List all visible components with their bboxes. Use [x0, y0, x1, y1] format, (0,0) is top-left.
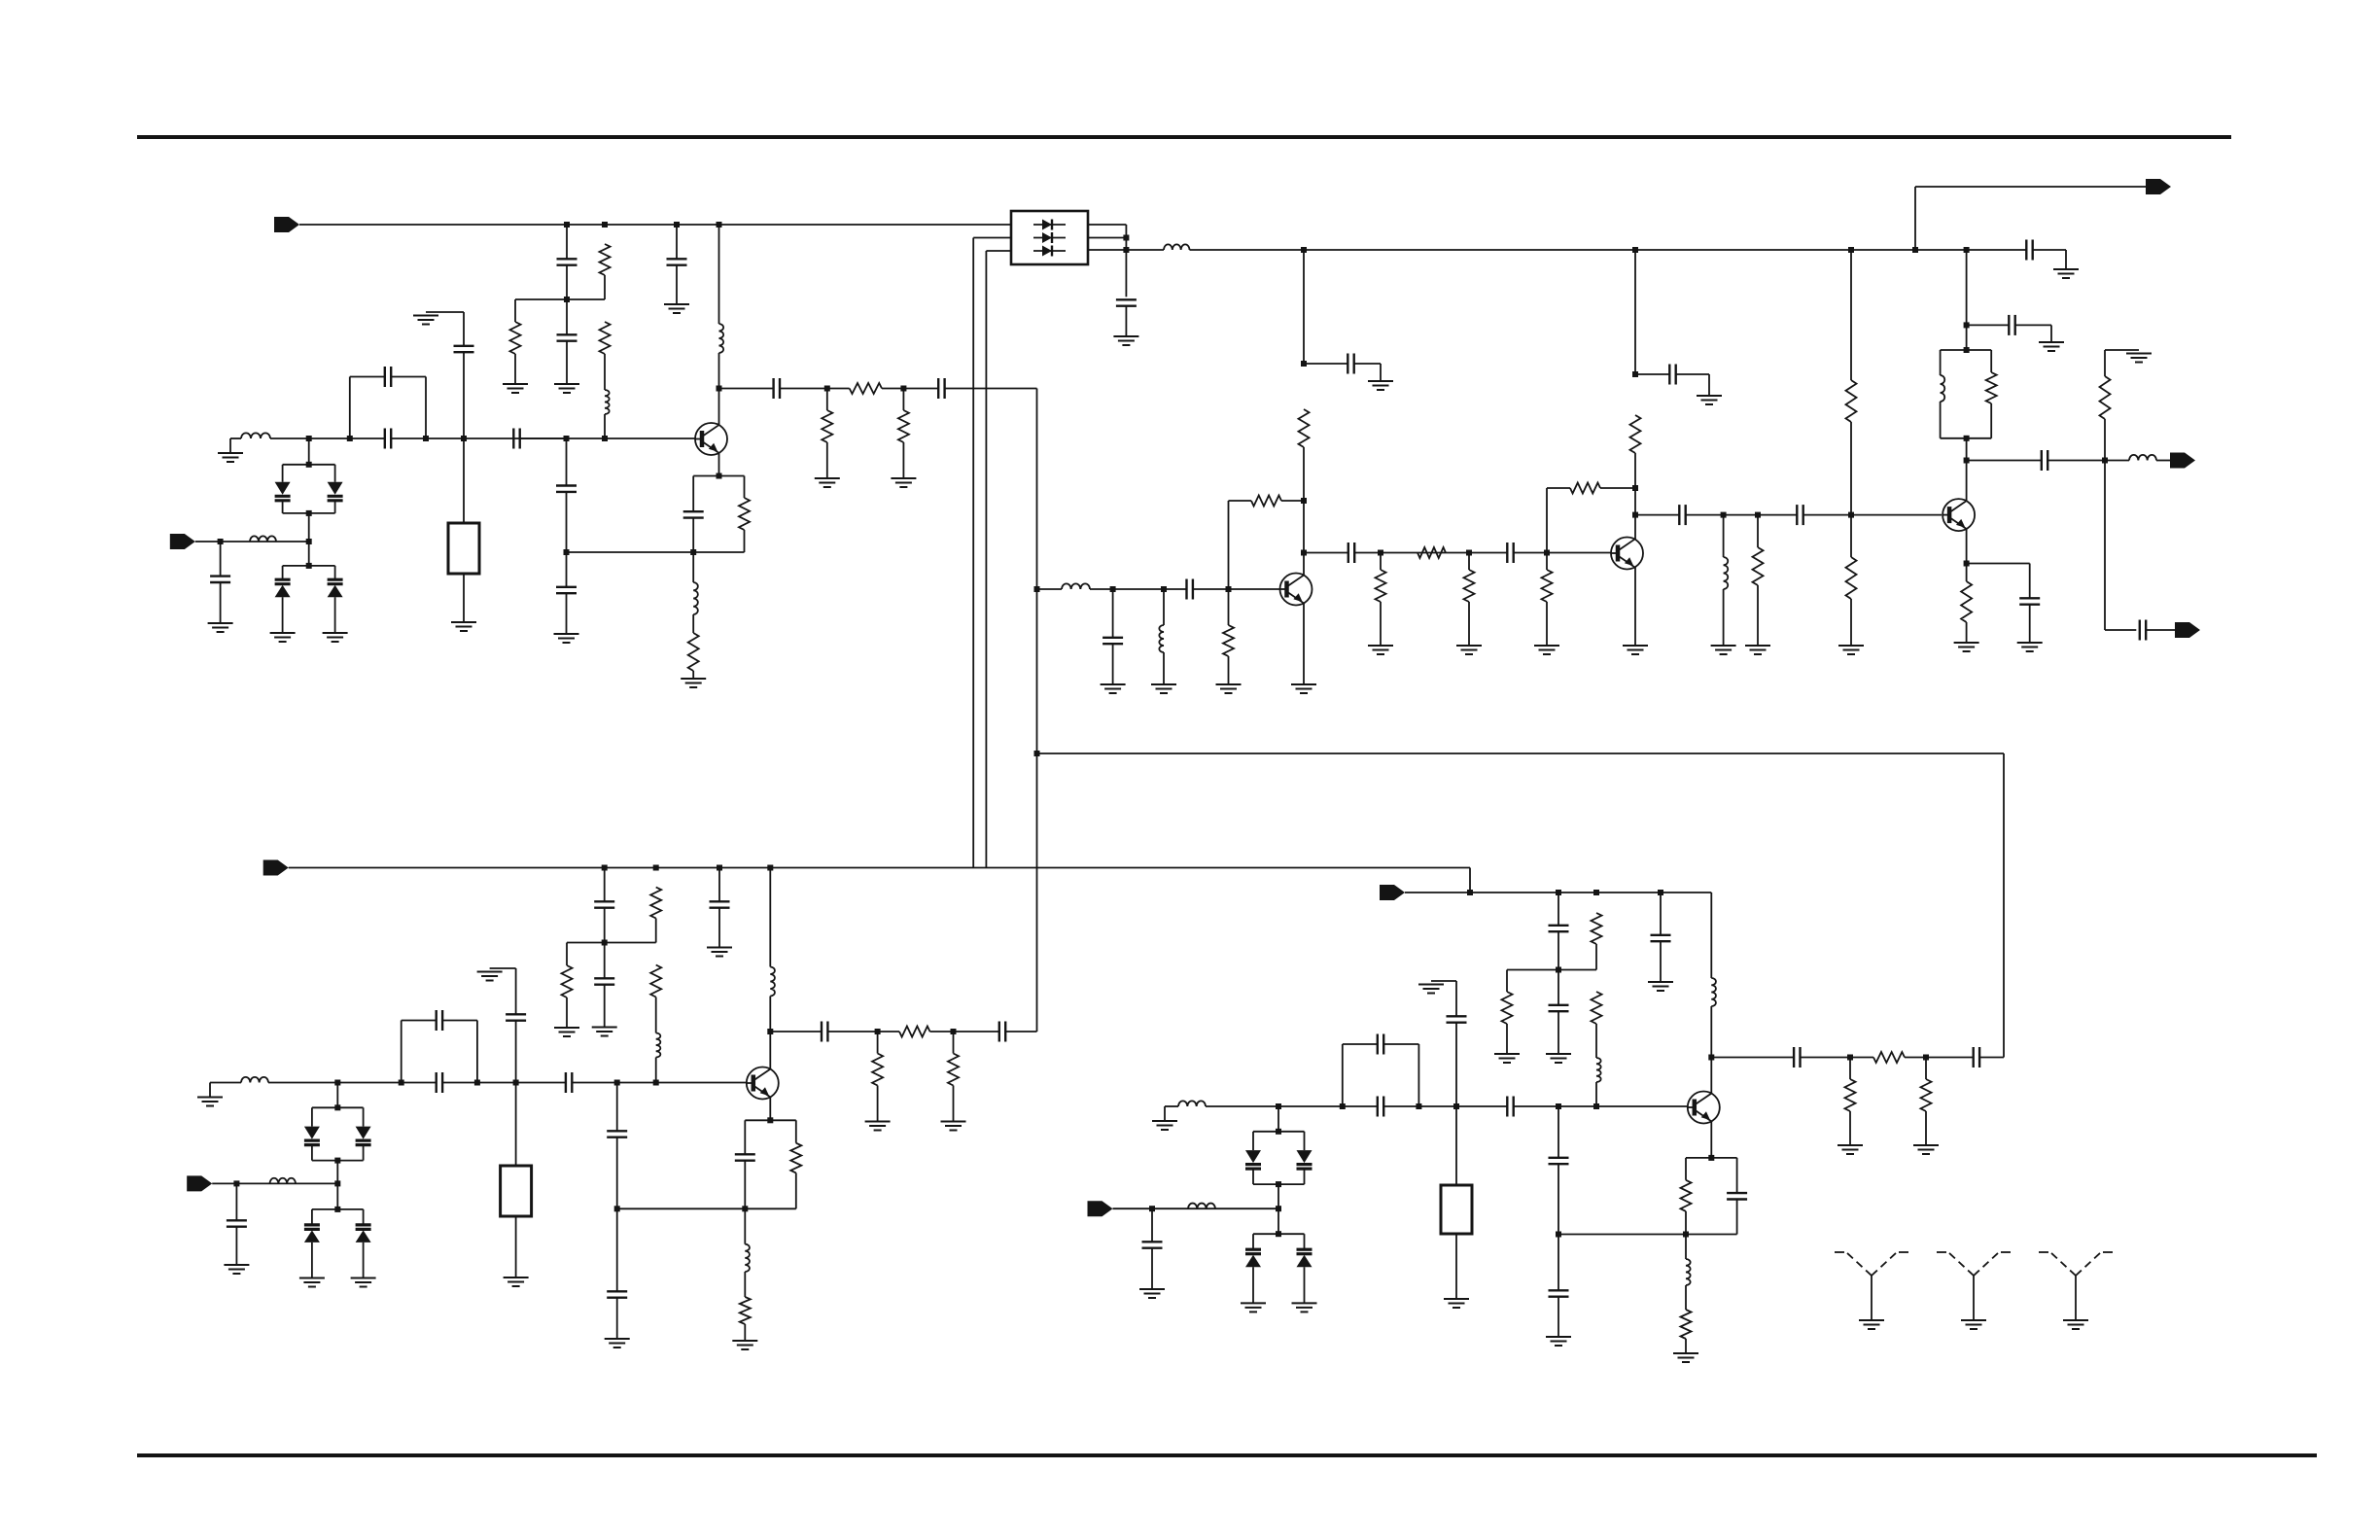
node Q5 collector [767, 1029, 773, 1034]
wire D2 bottom lead [334, 502, 336, 513]
wire bridge top left C [402, 1020, 437, 1022]
wire D11 bottom lead [363, 1242, 365, 1278]
capacitor C48 [1974, 1047, 1979, 1067]
wire R2 top lead [514, 299, 516, 322]
wire Q4 emitter lead [1966, 529, 1968, 564]
node P9/stem junction [1276, 1206, 1281, 1211]
node C-link junction [602, 940, 608, 946]
wire varactor stem D2 [1277, 1184, 1279, 1208]
wire C44 top lead [1557, 970, 1559, 1005]
varactor D9 [356, 1127, 371, 1145]
port P2 tune input arrow [170, 534, 195, 549]
inductor L16 [745, 1244, 750, 1272]
wire D13 bottom lead [1304, 1170, 1306, 1184]
node C21 tap [1632, 371, 1638, 377]
wire R11 bottom lead [1303, 447, 1305, 501]
capacitor C39 [227, 1220, 247, 1226]
wire R24-R26 link [655, 919, 657, 943]
wire D-link [1507, 969, 1596, 971]
ground below R6 [891, 478, 916, 487]
inductor L10 [1941, 375, 1945, 402]
wire R22 gnd link [2105, 349, 2139, 351]
capacitor C43 [1549, 926, 1569, 931]
wire C34 to bus [1005, 1031, 1036, 1032]
resistor R16 [1570, 483, 1600, 494]
wire R22 bottom lead [2104, 419, 2106, 461]
resistor R25 [562, 965, 573, 997]
wire D9 top lead [363, 1107, 365, 1126]
node P7/stem junction [334, 1180, 340, 1186]
wire R23 top lead [1966, 564, 1968, 582]
node P2 cap tap [218, 539, 224, 544]
wire bridge top right C [442, 1020, 477, 1022]
wire RF bus vertical [1036, 389, 1038, 1032]
node bridge left A [347, 436, 353, 441]
wire L5 top lead [692, 552, 694, 582]
node Q4 emitter [1964, 561, 1970, 567]
wire C48 to feed [1979, 1057, 2004, 1059]
port P9 tune input arrow [1088, 1201, 1113, 1216]
wire L8 bottom lead [1163, 652, 1165, 684]
node bridge right C [474, 1080, 480, 1086]
port P6 input arrow [263, 860, 289, 876]
resistor R4 [850, 383, 882, 394]
resistor R22 [2100, 376, 2111, 419]
wire R28 bottom lead [877, 1086, 879, 1122]
node rail-A/C1 junction [564, 222, 570, 227]
varactor D12 [1245, 1150, 1261, 1169]
ground at R22 [2126, 354, 2152, 363]
node var bracket C2 [334, 1158, 340, 1164]
node Q1 emitter [717, 473, 722, 479]
wire Q3 base stub [1610, 552, 1612, 555]
wire D14 bottom lead [1252, 1267, 1254, 1303]
capacitor C12 [683, 511, 704, 517]
capacitor C22 [1679, 505, 1685, 525]
node C13/C14 junction [564, 549, 570, 555]
wire emitter link A [567, 551, 694, 553]
ground below C39 [224, 1265, 249, 1274]
wire C13 bottom lead [566, 492, 568, 552]
wire R33 bottom lead [1506, 1024, 1508, 1054]
diode D5 in U1 [1033, 220, 1066, 230]
wire R10 right lead [1281, 500, 1304, 502]
wire var bracket C3 [312, 1208, 364, 1210]
inductor L17 [1596, 1058, 1601, 1082]
wire Q6 out to C47 [1711, 1057, 1794, 1059]
wire var bracket D1 [1253, 1131, 1305, 1133]
wire R37 bottom lead [1925, 1111, 1927, 1145]
ground below C21 [1697, 396, 1722, 404]
inductor L4 [250, 536, 276, 542]
wire R15 bottom lead [1546, 602, 1548, 646]
capacitor C52 [1447, 1016, 1467, 1022]
capacitor C1 [557, 259, 577, 264]
wire R32-R34 link [1595, 944, 1597, 970]
wire C41 bottom lead [616, 1137, 618, 1209]
wire varactor stem C3 [336, 1183, 338, 1209]
ground below C28 [2017, 643, 2043, 651]
node L17 join D [1593, 1103, 1599, 1109]
wire L21 top lead [1685, 1235, 1687, 1260]
wire varactor stem D1 [1277, 1106, 1279, 1132]
wire C25 right lead [2015, 324, 2051, 326]
wire L1 bottom lead [604, 414, 606, 438]
node L12 join C [653, 1080, 659, 1086]
ground below C2 [554, 384, 579, 393]
resistor R31 [740, 1297, 751, 1324]
capacitor C2 [557, 334, 577, 340]
node rail-B end [1964, 247, 1970, 253]
resistor R27 [899, 1027, 930, 1037]
wire L9 bottom lead [1723, 589, 1725, 646]
capacitor C28 [2019, 598, 2040, 604]
wire D4 bottom lead [334, 597, 336, 633]
node L8 tap [1161, 586, 1167, 592]
wire C5 to R4 [780, 388, 850, 390]
capacitor C47 [1794, 1047, 1800, 1067]
resistor R32 [1592, 913, 1602, 944]
wire U1 left pin3 [986, 250, 1011, 252]
wire D3 top lead [282, 566, 284, 579]
wire R38 top lead [1685, 1158, 1687, 1180]
antenna symbol ANT3 [2039, 1252, 2113, 1320]
capacitor C32 [710, 901, 730, 907]
diode D6 in U1 [1033, 232, 1066, 243]
wire C16 bottom lead [1112, 644, 1114, 684]
wire Y3 upper stem [1455, 981, 1457, 1016]
top border rule [137, 135, 2231, 139]
node bridge left D [1340, 1103, 1346, 1109]
node varactor tap D [1276, 1103, 1281, 1109]
wire C1 bottom lead [566, 265, 568, 300]
ground below D11 [351, 1278, 376, 1287]
bottom border rule [137, 1453, 2317, 1457]
wire C11 bottom lead [220, 582, 222, 623]
wire R28 top lead [877, 1032, 879, 1054]
wire varactor stem D3 [1277, 1208, 1279, 1234]
node rail-D/railC join [1467, 890, 1473, 895]
wire rail A [299, 224, 1011, 226]
capacitor C40 [735, 1154, 755, 1160]
wire C46 top lead [1660, 892, 1662, 935]
wire D9 bottom lead [363, 1146, 365, 1161]
node Q4 collector [1964, 458, 1970, 464]
varactor D1 [275, 482, 291, 501]
ground below D10 [299, 1278, 325, 1287]
wire R6 bottom lead [902, 442, 904, 478]
wire C54 bottom lead [1736, 1200, 1738, 1235]
node RF bus stage2 tap [1034, 586, 1040, 592]
wire var bracket A1 [283, 464, 335, 466]
wire C33 to R27 [827, 1031, 899, 1032]
wire rail C drop [1469, 868, 1471, 893]
capacitor C21 [1669, 365, 1675, 385]
varactor D2 [328, 482, 343, 501]
inductor L12 [656, 1033, 661, 1058]
ground below R2 [503, 384, 528, 393]
ground below C4 [664, 304, 689, 313]
wire D8 top lead [311, 1107, 313, 1126]
wire R27 to C34 [930, 1031, 999, 1032]
ground below Y3 [1444, 1299, 1469, 1308]
wire var bracket C1 [312, 1106, 364, 1108]
wire L18 bottom lead [1710, 1006, 1712, 1058]
wire R18 bottom lead [1634, 453, 1636, 488]
wire C44 bottom lead [1557, 1011, 1559, 1054]
node Q4 base node [1848, 512, 1854, 518]
ground below R15 [1534, 646, 1559, 654]
wire st23 c [1514, 552, 1611, 554]
inductor L9 [1724, 557, 1729, 589]
ground below R36 [1837, 1145, 1863, 1154]
ground below L8 [1151, 684, 1176, 693]
wire A2 line mid [391, 437, 566, 439]
resistor R14 [1464, 570, 1475, 602]
node L9 tap [1721, 512, 1727, 518]
wire Q2 emitter lead [1303, 603, 1305, 684]
wire out2 b [2047, 460, 2129, 462]
wire L13 top lead [769, 868, 771, 967]
wire emitter bracket C bottom [745, 1207, 796, 1209]
wire feed line drop [2003, 753, 2005, 1058]
T/R switch block U1 [1011, 211, 1088, 264]
ground below R20 [1838, 646, 1864, 654]
wire gnd link Y1 [426, 311, 464, 313]
wire var bracket A3 [283, 565, 335, 567]
capacitor C19 [1348, 542, 1354, 563]
node rail-B/R17 leg [1848, 247, 1854, 253]
node var bracket D1 [1276, 1129, 1281, 1135]
wire Y1 upper stem [463, 312, 465, 346]
wire Q4 collector lead [1966, 461, 1968, 502]
resistor R20 [1846, 557, 1857, 599]
wire varactor stem C2 [336, 1161, 338, 1184]
node emitter-cap leg D [1556, 1103, 1561, 1109]
ground below R25 [554, 1028, 579, 1036]
wire R19 bottom lead [1757, 585, 1759, 646]
wire out3 b [2146, 629, 2175, 631]
inductor L19 [1178, 1101, 1206, 1106]
wire D2 line left [1206, 1105, 1378, 1107]
node varactor tap C [334, 1080, 340, 1086]
wire D2 top lead [334, 465, 336, 482]
ground below R33 [1494, 1054, 1520, 1063]
capacitor C29 [594, 901, 614, 907]
capacitor C38 [506, 1014, 526, 1020]
wire R25 top lead [566, 943, 568, 966]
wire L16 top lead [744, 1208, 746, 1243]
resistor R15 [1542, 570, 1553, 602]
node Q3 collector [1632, 512, 1638, 518]
wire out2 a [1967, 460, 2042, 462]
wire varactor stem A2 [308, 513, 310, 542]
capacitor C5 [774, 378, 780, 399]
wire tank top bar [1941, 349, 1992, 351]
resistor R26 [650, 965, 661, 997]
capacitor C33 [822, 1022, 827, 1042]
node Q6 collector [1708, 1055, 1714, 1061]
wire R6 top lead [902, 389, 904, 411]
node R35/R37 junction [1923, 1055, 1929, 1061]
node var bracket A2 [306, 510, 312, 516]
capacitor C24 [2026, 240, 2032, 261]
wire C54 top lead [1736, 1158, 1738, 1193]
wire C14 top lead [566, 552, 568, 587]
wire P7 line [212, 1182, 337, 1184]
wire C4 bottom lead [676, 265, 678, 305]
ground below R19 [1745, 646, 1770, 654]
resistor R34 [1592, 992, 1602, 1024]
ground below R23 [1954, 643, 1979, 651]
capacitor C16 [1102, 638, 1123, 644]
capacitor C27 [2140, 620, 2146, 641]
ground below C16 [1101, 684, 1126, 693]
transistor Q1 [695, 423, 727, 455]
wire R30 bottom lead [795, 1172, 797, 1208]
wire Q3 collector lead [1634, 515, 1636, 540]
wire C21 left lead [1635, 373, 1669, 375]
wire st34 c [1803, 514, 1942, 516]
resistor R18 [1630, 415, 1641, 453]
node var bracket C3 [334, 1207, 340, 1212]
wire emitter bracket A top [693, 475, 744, 477]
wire Y3 lower stem [1455, 1234, 1457, 1299]
wire C14 bottom lead [566, 593, 568, 634]
node C25 tap [1964, 322, 1970, 328]
node R27/R29 junction [951, 1029, 957, 1034]
wire C15 bottom lead [1125, 306, 1127, 336]
wire L10 bottom lead [1940, 402, 1942, 438]
ground below R28 [865, 1122, 891, 1131]
inductor L6 [1164, 244, 1190, 250]
ground below R39 [1673, 1353, 1698, 1362]
wire C17 gnd drop [1380, 364, 1382, 381]
ground at L19 [1152, 1121, 1177, 1130]
wire L3 top lead [718, 225, 720, 324]
resistor R38 [1681, 1180, 1692, 1211]
ground below C44 [1546, 1054, 1571, 1063]
wire R7 top lead [744, 476, 746, 499]
transistor Q6 [1688, 1092, 1720, 1124]
wire R14 top lead [1468, 553, 1470, 571]
wire rail C [289, 867, 1470, 869]
wire Y2 upper stem [515, 968, 517, 1014]
wire rail D corner drop [1710, 892, 1712, 978]
node tank top [1964, 347, 1970, 353]
inductor L20 [1188, 1204, 1215, 1209]
wire bridge right D [1417, 1044, 1419, 1106]
wire C32 bottom lead [718, 908, 720, 948]
ground below C56 [1546, 1337, 1571, 1346]
wire R16 drop [1546, 488, 1548, 553]
node U1 pin2 join [1123, 235, 1129, 241]
capacitor C18 series [1187, 579, 1193, 600]
crystal Y1 [448, 523, 479, 574]
wire Q6 collector lead [1710, 1058, 1712, 1094]
capacitor C34 [999, 1022, 1005, 1042]
capacitor C14 [556, 587, 577, 593]
capacitor C53 [1142, 1242, 1163, 1247]
node L1 join A [602, 436, 608, 441]
wire R8 bottom lead [692, 671, 694, 679]
capacitor C37 series [566, 1072, 572, 1093]
wire C16 top lead [1112, 589, 1114, 638]
inductor L11 [2129, 455, 2156, 461]
ground below L9 [1711, 646, 1736, 654]
wire C55 top lead [1557, 1106, 1559, 1158]
wire L14 ground stem [209, 1083, 211, 1098]
node rail-C/C29 junction [602, 865, 608, 871]
port P3 IF output arrow [2146, 179, 2171, 194]
wire A-link [515, 298, 605, 300]
wire R16 right lead [1600, 487, 1635, 489]
port P7 tune input arrow [187, 1175, 212, 1191]
wire C6 to bus [945, 388, 1037, 390]
ground below D3 [270, 633, 296, 642]
wire R10 left lead [1229, 500, 1252, 502]
capacitor C23 [1797, 505, 1802, 525]
capacitor C36 bridge [437, 1010, 442, 1031]
wire R30 top lead [795, 1120, 797, 1142]
wire P9 line [1113, 1207, 1279, 1209]
node emitter-cap leg C [614, 1080, 620, 1086]
wire Y2 stem [515, 1021, 517, 1166]
wire st23 b [1354, 552, 1507, 554]
node P7 cap tap [233, 1180, 239, 1186]
resistor R33 [1502, 992, 1513, 1024]
wire U1 right pin1 [1088, 224, 1126, 226]
wire C25 gnd drop [2050, 325, 2052, 342]
wire R29 top lead [953, 1032, 955, 1054]
resistor R6 [898, 410, 909, 442]
wire D10 top lead [311, 1209, 313, 1225]
transistor Q3 [1611, 538, 1643, 570]
resistor R36 [1845, 1079, 1856, 1111]
capacitor C17 [1347, 354, 1353, 374]
wire C21 right lead [1676, 373, 1709, 375]
wire A2 line right [520, 437, 695, 439]
wire C24 gnd drop [2065, 250, 2067, 269]
resistor R1 [600, 244, 611, 275]
node var bracket A1 [306, 462, 312, 468]
wire C46 bottom lead [1660, 941, 1662, 982]
ground at Y2 [477, 972, 503, 981]
wire C28 top lead [2029, 564, 2031, 599]
node varactor tap A [306, 436, 312, 441]
node Q1 collector [717, 386, 722, 392]
ground below C53 [1139, 1289, 1165, 1298]
capacitor C54 [1727, 1193, 1747, 1199]
wire D13 top lead [1304, 1132, 1306, 1150]
wire C43 top lead [1557, 892, 1559, 926]
node tank bottom [1964, 436, 1970, 441]
capacitor C51 series [1507, 1097, 1513, 1117]
wire C24 left lead [1967, 249, 2027, 251]
wire C11 top lead [220, 542, 222, 577]
resistor R24 [650, 888, 661, 919]
wire C56 bottom lead [1557, 1297, 1559, 1337]
ground below D14 [1241, 1303, 1266, 1312]
ground below R12 [1368, 646, 1393, 654]
resistor R2 [510, 322, 521, 354]
wire out1 line [1915, 186, 2146, 188]
node R14 tap [1466, 550, 1472, 556]
wire bridge top left D [1343, 1043, 1378, 1045]
wire R12 top lead [1380, 553, 1382, 571]
varactor D11 [356, 1225, 371, 1242]
capacitor C7 series [385, 429, 391, 449]
